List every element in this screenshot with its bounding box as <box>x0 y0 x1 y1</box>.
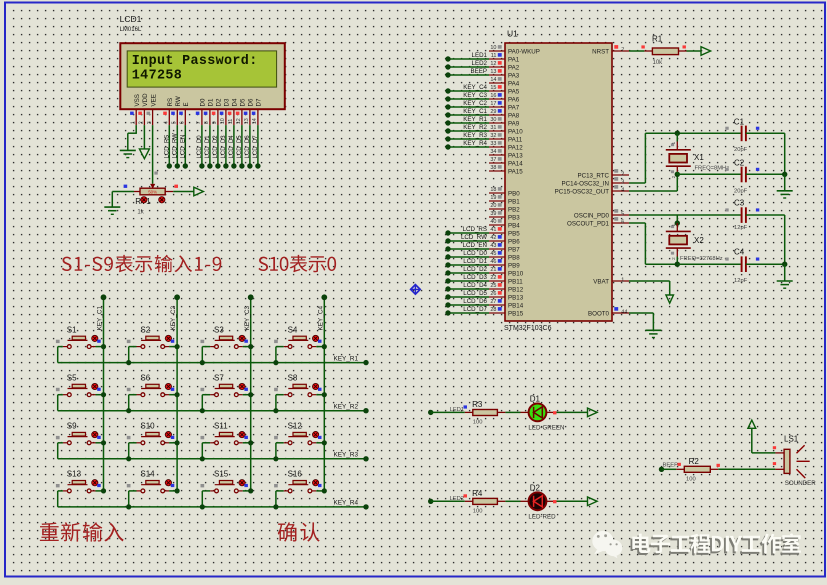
junction X2 bottom <box>675 262 680 267</box>
svg-text:2: 2 <box>139 121 145 124</box>
wire C1 right to ground rail <box>746 133 785 174</box>
annotation text S10 means 0 <box>258 255 336 272</box>
svg-text:1: 1 <box>130 121 136 124</box>
svg-text:37: 37 <box>490 157 496 163</box>
svg-text:LCD_D0: LCD_D0 <box>197 135 203 159</box>
svg-text:LCD_D4: LCD_D4 <box>229 135 235 159</box>
svg-text:32: 32 <box>490 133 496 139</box>
svg-text:147258: 147258 <box>132 68 182 83</box>
svg-text:PB4: PB4 <box>508 222 520 229</box>
wire row bus net KEY_R1 <box>58 355 369 365</box>
wire LCD pin 11 net LCD_D4 <box>229 125 237 169</box>
svg-text:50%: 50% <box>148 190 157 195</box>
push button S12 <box>274 422 321 445</box>
U1 port B pins PB0-PB15 <box>489 187 524 317</box>
svg-text:LCD_D2: LCD_D2 <box>463 266 487 273</box>
ground symbol X1 group <box>777 191 793 198</box>
svg-text:LCD_D4: LCD_D4 <box>463 282 487 289</box>
wire S10 right contact to column <box>165 440 180 445</box>
wire column net KEY_C3 <box>244 294 254 491</box>
svg-text:6: 6 <box>180 121 186 124</box>
svg-text:LED-RED: LED-RED <box>528 514 556 521</box>
svg-text:S16: S16 <box>288 470 303 479</box>
wire VBAT pin1 to ground terminal <box>629 281 670 295</box>
svg-text:14: 14 <box>252 118 258 124</box>
push button S15 <box>201 470 248 493</box>
svg-text:3: 3 <box>147 121 153 124</box>
wire net LCD_RS to U1 <box>445 226 489 236</box>
svg-text:PA5: PA5 <box>508 88 520 95</box>
svg-text:S9: S9 <box>67 422 77 431</box>
push button S7 <box>201 373 248 396</box>
wire net KEY_C2 to U1 <box>445 100 489 110</box>
svg-text:39: 39 <box>490 211 496 217</box>
push button S5 <box>56 373 101 396</box>
LED D1 LED-GREEN <box>528 395 564 432</box>
svg-text:KEY_C3: KEY_C3 <box>463 92 487 99</box>
svg-text:21: 21 <box>490 267 496 273</box>
svg-text:C1: C1 <box>734 117 745 126</box>
svg-text:30: 30 <box>490 117 496 123</box>
svg-text:NRST: NRST <box>592 48 609 55</box>
svg-text:LCD_RS: LCD_RS <box>164 135 170 159</box>
LCD display LCD1 LM016L <box>120 14 285 109</box>
annotation text S1-S9 means input 1-9 <box>62 255 221 273</box>
power terminal (up arrow) for LS1 <box>748 420 756 428</box>
svg-text:PA0-WKUP: PA0-WKUP <box>508 48 540 55</box>
svg-text:Input Password:: Input Password: <box>132 54 258 69</box>
svg-text:FREQ=8MHz: FREQ=8MHz <box>695 166 730 172</box>
wire OSCOUT pin6 down to C4 rail <box>629 223 677 264</box>
svg-text:LCD_D1: LCD_D1 <box>205 135 211 159</box>
svg-text:D0: D0 <box>200 98 207 106</box>
svg-text:PB2: PB2 <box>508 206 520 213</box>
wire net LCD_RW to U1 <box>445 234 489 244</box>
svg-text:1: 1 <box>671 223 676 226</box>
svg-text:S14: S14 <box>140 470 155 479</box>
wire NRST to R1 <box>629 45 645 51</box>
wire R2 to LS1 <box>717 464 785 470</box>
svg-text:45: 45 <box>490 251 496 257</box>
svg-text:10k: 10k <box>653 60 664 66</box>
svg-text:20: 20 <box>490 203 496 209</box>
wire R1 to power terminal <box>683 45 702 51</box>
svg-text:16: 16 <box>490 93 496 99</box>
wire row bus net KEY_R4 <box>58 500 369 510</box>
svg-text:LED1: LED1 <box>472 52 488 59</box>
svg-text:D2: D2 <box>216 98 223 106</box>
svg-text:17: 17 <box>490 101 496 107</box>
svg-text:LCD_RW: LCD_RW <box>172 133 178 159</box>
U1 port A pins PA0-PA15 <box>489 45 540 175</box>
watermark text <box>631 535 800 555</box>
junction X1 top <box>675 131 680 136</box>
wire LCD pin 6 net LCD_EN <box>180 125 188 169</box>
svg-text:LCD_D6: LCD_D6 <box>463 298 487 305</box>
svg-text:R4: R4 <box>472 489 483 498</box>
svg-text:20pF: 20pF <box>734 147 748 153</box>
capacitor C4 12pF <box>677 248 759 284</box>
svg-text:LCD_EN: LCD_EN <box>180 135 186 159</box>
capacitor C1 20pF <box>725 117 759 153</box>
svg-text:34: 34 <box>490 149 496 155</box>
svg-text:C3: C3 <box>734 199 745 208</box>
svg-text:LCD1: LCD1 <box>120 14 142 24</box>
svg-text:U1: U1 <box>507 29 518 39</box>
svg-text:12: 12 <box>490 61 496 67</box>
wire column net KEY_C1 <box>97 294 107 491</box>
svg-text:10: 10 <box>220 118 226 124</box>
push button S1 <box>56 325 101 348</box>
wire net LCD_D3 to U1 <box>445 274 489 284</box>
svg-text:2: 2 <box>621 171 624 177</box>
capacitor C3 12pF <box>725 199 759 232</box>
svg-text:PB9: PB9 <box>508 262 520 269</box>
svg-text:31: 31 <box>490 125 496 131</box>
wire net LED2 to R4 <box>428 494 467 504</box>
svg-text:4: 4 <box>621 187 624 193</box>
push button S8 <box>274 373 321 396</box>
svg-text:LCD_D2: LCD_D2 <box>213 135 219 159</box>
wire S4 right contact to column <box>312 344 327 349</box>
svg-text:15: 15 <box>490 85 496 91</box>
wire LCD pin 10 net LCD_D3 <box>221 125 229 169</box>
wire PC15 pin4 up to X1 bottom rail <box>629 174 677 191</box>
svg-text:VBAT: VBAT <box>593 278 609 285</box>
wire LCD pin 12 net LCD_D5 <box>237 125 245 169</box>
wire net KEY_C3 to U1 <box>445 92 489 102</box>
svg-text:PA2: PA2 <box>508 64 520 71</box>
svg-text:S6: S6 <box>140 373 150 382</box>
wire S16 right contact to column <box>312 488 327 493</box>
wire LCD pin 13 net LCD_D6 <box>245 125 253 169</box>
svg-text:OSCOUT_PD1: OSCOUT_PD1 <box>567 220 610 227</box>
svg-text:9: 9 <box>212 121 218 124</box>
svg-text:KEY_R4: KEY_R4 <box>463 140 487 147</box>
junction X1 bottom <box>675 172 680 177</box>
power terminal (right arrow) at RV1 <box>194 187 204 196</box>
svg-text:LCD_D7: LCD_D7 <box>463 306 487 313</box>
svg-text:PA15: PA15 <box>508 168 523 175</box>
wire net KEY_R1 to U1 <box>445 116 489 126</box>
svg-text:D1: D1 <box>530 395 541 404</box>
wire S13 right contact to column <box>91 488 106 493</box>
svg-text:KEY_R1: KEY_R1 <box>463 116 487 123</box>
svg-text:100: 100 <box>473 420 483 426</box>
wire PC14 pin3 up to X1 top rail <box>629 133 741 183</box>
svg-text:KEY_C2: KEY_C2 <box>170 306 177 331</box>
svg-text:PB7: PB7 <box>508 246 520 253</box>
svg-text:S4: S4 <box>288 325 298 334</box>
wire column net KEY_C2 <box>170 294 180 491</box>
svg-text:PC13_RTC: PC13_RTC <box>577 172 609 179</box>
svg-text:KEY_C1: KEY_C1 <box>97 306 104 331</box>
ground symbol X2 group <box>777 281 793 288</box>
svg-text:PA3: PA3 <box>508 72 520 79</box>
wire S9 left contact to row bus <box>58 443 68 459</box>
wire D1 to power terminal <box>546 411 587 414</box>
svg-text:5: 5 <box>621 211 624 217</box>
svg-text:7: 7 <box>196 121 202 124</box>
svg-text:46: 46 <box>490 259 496 265</box>
svg-text:KEY_C4: KEY_C4 <box>463 84 487 91</box>
wire S10 left contact to row bus <box>126 443 141 462</box>
svg-text:PB10: PB10 <box>508 270 524 277</box>
svg-text:LCD_D6: LCD_D6 <box>245 135 251 159</box>
svg-text:1: 1 <box>671 141 676 144</box>
wire LCD pin 5 net LCD_RW <box>172 125 180 169</box>
svg-text:D1: D1 <box>208 98 215 106</box>
svg-text:LED1: LED1 <box>450 407 465 413</box>
push button S14 <box>127 470 175 493</box>
wire column net KEY_C4 <box>317 294 327 491</box>
svg-text:2: 2 <box>671 257 676 260</box>
svg-text:KEY_C1: KEY_C1 <box>463 108 487 115</box>
wire VSS pin1 to ground <box>128 125 137 150</box>
wire net LCD_D4 to U1 <box>445 282 489 292</box>
svg-text:LED2: LED2 <box>450 496 465 502</box>
svg-text:VEE: VEE <box>150 94 157 106</box>
svg-text:S5: S5 <box>67 373 77 382</box>
svg-text:FREQ=32768Hz: FREQ=32768Hz <box>680 256 723 262</box>
svg-text:LCD_D0: LCD_D0 <box>463 250 487 257</box>
svg-text:29: 29 <box>490 109 496 115</box>
svg-text:KEY_R3: KEY_R3 <box>463 132 487 139</box>
svg-text:S3: S3 <box>214 325 224 334</box>
potentiometer RV1 1k <box>135 184 165 216</box>
wire LCD pin 9 net LCD_D2 <box>213 125 221 169</box>
svg-text:LM016L: LM016L <box>120 27 142 33</box>
wire LCD pin 4 net LCD_RS <box>164 125 172 169</box>
svg-text:PB13: PB13 <box>508 294 524 301</box>
wire S15 right contact to column <box>238 488 253 493</box>
svg-text:40: 40 <box>490 219 496 225</box>
wire LCD pin 7 net LCD_D0 <box>197 125 205 169</box>
svg-text:26: 26 <box>490 291 496 297</box>
svg-text:12: 12 <box>236 118 242 124</box>
wire S16 left contact to row bus <box>273 491 288 510</box>
svg-text:4: 4 <box>164 121 170 124</box>
svg-text:22: 22 <box>490 275 496 281</box>
svg-text:LCD_D3: LCD_D3 <box>221 135 227 159</box>
svg-text:S7: S7 <box>214 373 224 382</box>
svg-text:D6: D6 <box>248 98 255 106</box>
svg-text:12pF: 12pF <box>734 278 748 284</box>
svg-text:1: 1 <box>621 277 624 283</box>
push button S10 <box>127 422 175 445</box>
svg-text:S2: S2 <box>140 325 150 334</box>
svg-text:41: 41 <box>490 227 496 233</box>
wire LCD pin 8 net LCD_D1 <box>205 125 213 169</box>
wire VEE pin3 to RV1 wiper <box>153 125 158 184</box>
wire RV1 right to power terminal <box>124 185 194 192</box>
wire S1 right contact to column <box>91 344 106 349</box>
wire net KEY_R4 to U1 <box>445 140 489 150</box>
wire S12 left contact to row bus <box>273 443 288 462</box>
power terminal (right arrow) after D2 <box>588 497 598 506</box>
svg-text:LCD_D5: LCD_D5 <box>463 290 487 297</box>
svg-text:PA10: PA10 <box>508 128 523 135</box>
svg-text:KEY_R4: KEY_R4 <box>334 500 359 507</box>
svg-text:D3: D3 <box>224 98 231 106</box>
svg-text:19: 19 <box>490 195 496 201</box>
svg-text:BOOT0: BOOT0 <box>588 310 610 317</box>
svg-text:33: 33 <box>490 141 496 147</box>
wire net LED1 to R3 <box>428 405 467 415</box>
wire S5 left contact to row bus <box>58 395 68 411</box>
svg-text:1k: 1k <box>137 209 144 215</box>
svg-text:R1: R1 <box>652 35 663 44</box>
svg-text:R2: R2 <box>689 457 700 466</box>
svg-text:PC15-OSC32_OUT: PC15-OSC32_OUT <box>555 188 610 195</box>
push button S3 <box>201 325 248 348</box>
wire rail to X2 top <box>675 215 680 226</box>
svg-text:43: 43 <box>490 243 496 249</box>
push button S16 <box>274 470 321 493</box>
push button S13 <box>56 470 101 493</box>
svg-text:KEY_R3: KEY_R3 <box>334 452 359 459</box>
svg-text:D5: D5 <box>240 98 247 106</box>
svg-text:LCD_RW: LCD_RW <box>461 234 487 241</box>
crystal X1 FREQ=8MHz <box>666 133 729 178</box>
wire net LCD_EN to U1 <box>445 242 489 252</box>
svg-text:C2: C2 <box>734 159 745 168</box>
wire net LED2 to U1 <box>445 60 489 70</box>
svg-text:PA12: PA12 <box>508 144 523 151</box>
wire S11 left contact to row bus <box>200 443 215 462</box>
svg-text:STM32F103C6: STM32F103C6 <box>504 325 552 332</box>
svg-text:PA14: PA14 <box>508 160 523 167</box>
wire C4 right to ground <box>746 262 788 281</box>
svg-text:LCD_EN: LCD_EN <box>463 242 487 249</box>
wire net BEEP to R2 <box>659 463 681 472</box>
power terminal (right arrow) after R1 <box>701 47 711 56</box>
watermark logo (chat bubbles) <box>592 531 622 558</box>
svg-text:3: 3 <box>621 179 624 185</box>
wire net KEY_C4 to U1 <box>445 84 489 94</box>
push button S9 <box>56 422 101 445</box>
push button S4 <box>274 325 321 348</box>
svg-text:8: 8 <box>204 121 210 124</box>
LED D2 LED-RED <box>528 484 556 521</box>
svg-text:D7: D7 <box>256 98 263 106</box>
svg-text:100: 100 <box>473 509 483 515</box>
svg-text:KEY_R1: KEY_R1 <box>334 355 359 362</box>
wire S8 right contact to column <box>312 392 327 397</box>
svg-text:PA8: PA8 <box>508 112 520 119</box>
svg-text:PB3: PB3 <box>508 214 520 221</box>
ground symbol below LCD VSS <box>120 150 136 157</box>
svg-text:S10: S10 <box>140 422 155 431</box>
wire net KEY_C1 to U1 <box>445 108 489 118</box>
svg-text:100: 100 <box>686 477 696 483</box>
wire row bus net KEY_R2 <box>58 404 369 414</box>
power terminal (right arrow) after D1 <box>588 408 598 417</box>
resistor R3 100 <box>465 400 506 426</box>
svg-text:PA13: PA13 <box>508 152 523 159</box>
push button S2 <box>127 325 175 348</box>
svg-text:RW: RW <box>175 96 182 106</box>
svg-text:11: 11 <box>228 119 234 125</box>
svg-text:LED-GREEN: LED-GREEN <box>528 425 564 432</box>
wire S2 left contact to row bus <box>126 347 141 366</box>
LCD pin stubs, pin numbers and state squares <box>130 109 258 125</box>
svg-text:PB0: PB0 <box>508 190 520 197</box>
wire net LCD_D5 to U1 <box>445 290 489 300</box>
svg-text:LS1: LS1 <box>784 434 799 443</box>
annotation text re-enter <box>40 522 124 541</box>
wire net LCD_D2 to U1 <box>445 266 489 276</box>
wire row bus net KEY_R3 <box>58 452 369 462</box>
wire S6 left contact to row bus <box>126 395 141 414</box>
svg-text:S12: S12 <box>288 422 303 431</box>
svg-text:LCD_D3: LCD_D3 <box>463 274 487 281</box>
wire RV1 left to ground <box>112 192 140 208</box>
wire S3 right contact to column <box>238 344 253 349</box>
svg-text:LED2: LED2 <box>472 60 488 67</box>
ground symbol below RV1 <box>104 207 120 214</box>
capacitor C2 20pF <box>677 159 759 195</box>
resistor R2 100 <box>676 457 718 483</box>
svg-text:E: E <box>183 102 190 106</box>
svg-text:PA7: PA7 <box>508 104 520 111</box>
svg-text:KEY_C4: KEY_C4 <box>317 306 324 331</box>
svg-text:5: 5 <box>172 121 178 124</box>
svg-text:13: 13 <box>244 118 250 124</box>
svg-text:PB14: PB14 <box>508 302 524 309</box>
svg-text:LCD_D7: LCD_D7 <box>253 135 259 159</box>
svg-text:VSS: VSS <box>134 94 141 106</box>
wire net LCD_D0 to U1 <box>445 250 489 260</box>
svg-text:10: 10 <box>490 45 496 51</box>
wire C2 right to ground <box>746 172 788 191</box>
crystal X2 FREQ=32768Hz <box>666 223 723 264</box>
wire S7 left contact to row bus <box>200 395 215 414</box>
svg-text:14: 14 <box>490 77 496 83</box>
svg-text:42: 42 <box>490 235 496 241</box>
wire S11 right contact to column <box>238 440 253 445</box>
wire S15 left contact to row bus <box>200 491 215 510</box>
ground terminal (down arrow) on VBAT <box>666 295 674 303</box>
svg-text:R3: R3 <box>472 400 483 409</box>
resistor R1 10k <box>644 35 686 67</box>
svg-text:KEY_R2: KEY_R2 <box>334 404 359 411</box>
svg-text:LCD_RS: LCD_RS <box>463 226 487 233</box>
origin marker (blue diamond) <box>411 285 421 295</box>
svg-text:PA4: PA4 <box>508 80 520 87</box>
ground symbol BOOT0 <box>645 330 661 337</box>
svg-text:PC14-OSC32_IN: PC14-OSC32_IN <box>562 180 609 187</box>
wire C3 right to ground rail <box>746 215 785 264</box>
wire S4 left contact to row bus <box>273 347 288 366</box>
svg-text:C4: C4 <box>734 248 745 257</box>
svg-text:PB8: PB8 <box>508 254 520 261</box>
wire power to LS1 top pin <box>752 428 784 465</box>
wire S3 left contact to row bus <box>200 347 215 366</box>
svg-text:PB12: PB12 <box>508 286 524 293</box>
wire net KEY_R2 to U1 <box>445 124 489 134</box>
push button S6 <box>127 373 175 396</box>
wire R3 to D1 <box>505 411 528 413</box>
svg-text:PA6: PA6 <box>508 96 520 103</box>
svg-text:S8: S8 <box>288 373 298 382</box>
resistor R4 100 <box>465 489 506 515</box>
svg-text:28: 28 <box>490 307 496 313</box>
svg-text:11: 11 <box>491 53 497 59</box>
wire S14 left contact to row bus <box>126 491 141 510</box>
svg-text:PB11: PB11 <box>508 278 523 285</box>
wire S13 left contact to row bus <box>58 491 68 507</box>
